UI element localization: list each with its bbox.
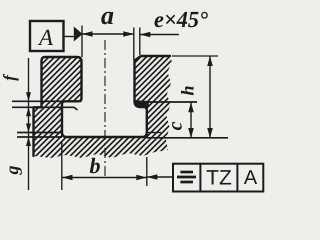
label h xyxy=(181,86,194,95)
dimension line e xyxy=(140,34,179,36)
section hatching of T-slot rail body xyxy=(34,56,173,158)
tolerance frame leader xyxy=(147,176,173,178)
datum box A xyxy=(30,21,64,51)
corner junction fill at recess ceiling xyxy=(135,100,149,107)
extension line recess ceiling right for c xyxy=(136,101,197,103)
arrowhead c top xyxy=(188,102,194,112)
label f xyxy=(3,74,19,81)
extension line top surface right for h xyxy=(172,55,218,57)
label b xyxy=(90,158,100,174)
tolerance frame leader arrowhead xyxy=(147,174,158,180)
extension line stub slot bottom right xyxy=(147,132,161,134)
arrowhead b left xyxy=(62,175,73,181)
wear-limit line floor left xyxy=(17,136,62,138)
label g xyxy=(10,166,22,175)
arrowhead a left xyxy=(82,31,93,37)
arrowhead h top xyxy=(207,56,213,66)
arrowhead a right xyxy=(123,31,134,37)
tolerance value TZ xyxy=(207,170,232,184)
tolerance frame divider 2 xyxy=(236,164,238,192)
arrowhead f up xyxy=(26,107,31,116)
arrowhead g up xyxy=(26,137,31,146)
label a xyxy=(101,12,113,25)
dimension line h xyxy=(209,56,211,138)
wear-limit line lower left xyxy=(12,107,78,110)
extension line slot left wall xyxy=(81,26,83,58)
tolerance frame divider 1 xyxy=(199,164,201,192)
arrowhead b right xyxy=(136,175,147,181)
extension line b left xyxy=(61,141,63,190)
T-slot profile outline xyxy=(34,56,171,156)
wear-limit line upper left xyxy=(12,100,82,102)
label e x 45 deg xyxy=(155,12,208,28)
tolerance frame box xyxy=(173,164,263,192)
referenced datum A xyxy=(244,170,257,184)
extension line slot bottom left xyxy=(17,132,62,134)
vertical centerline xyxy=(104,40,106,176)
dimension line c xyxy=(190,102,192,138)
arrowhead g down xyxy=(26,124,31,133)
symmetry symbol xyxy=(177,172,196,182)
arrowhead e xyxy=(140,32,151,38)
arrowhead f down xyxy=(26,92,31,101)
dimension line b xyxy=(62,177,147,179)
extension line b right xyxy=(146,157,148,186)
label c xyxy=(172,122,182,130)
arrowhead h bottom xyxy=(207,128,213,138)
extension line floor right for c and h xyxy=(147,137,228,139)
datum letter A xyxy=(38,30,53,45)
extension line chamfer edge xyxy=(139,28,141,56)
extension line slot right wall xyxy=(133,28,135,61)
datum leader xyxy=(64,36,74,38)
arrowhead c bottom xyxy=(188,128,194,138)
datum solid triangle xyxy=(74,27,83,42)
dimension line a xyxy=(82,33,134,35)
dimension line f g column xyxy=(28,58,30,190)
